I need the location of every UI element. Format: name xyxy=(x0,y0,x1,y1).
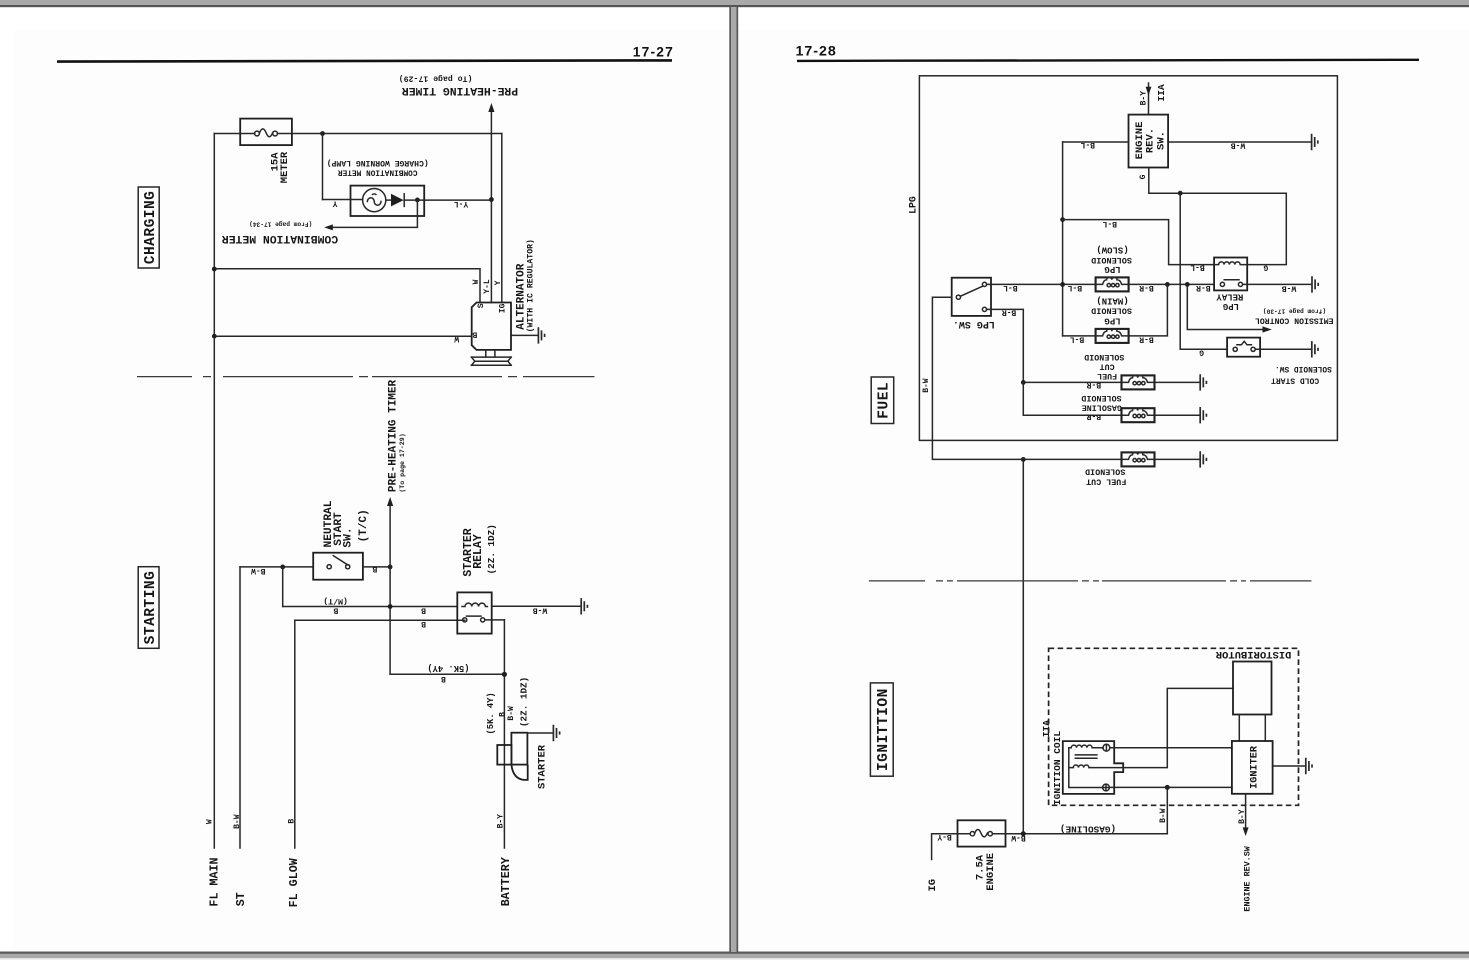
wire LPG sw B-L to slow solenoid xyxy=(987,283,1096,285)
page gutter between two scanned pages xyxy=(729,7,731,952)
svg-text:B-R: B-R xyxy=(1002,308,1017,317)
wire FL GLOW row to relay contact xyxy=(295,619,465,621)
wire battery vertical xyxy=(503,620,505,848)
fuel cut solenoid 2 L5 xyxy=(1122,452,1155,466)
diode D1 xyxy=(386,194,404,207)
engine rev switch S2 box xyxy=(1129,115,1169,168)
svg-text:B-Y: B-Y xyxy=(1238,809,1247,824)
node fuel cut solenoid row xyxy=(1021,380,1026,385)
svg-text:B: B xyxy=(333,606,338,615)
svg-text:B-W: B-W xyxy=(507,706,516,721)
ground gasoline solenoid xyxy=(1200,407,1206,423)
svg-text:Y-L: Y-L xyxy=(454,199,469,208)
wire into lamp xyxy=(323,199,363,201)
node W branch xyxy=(212,267,217,272)
svg-text:(To page 17-29): (To page 17-29) xyxy=(399,433,406,492)
node slow row / trunk xyxy=(1060,282,1065,287)
label LPG RELAY xyxy=(1216,292,1244,311)
svg-text:LPG: LPG xyxy=(1104,315,1120,325)
svg-text:LPG: LPG xyxy=(908,196,919,214)
svg-text:B-Y: B-Y xyxy=(1140,91,1149,106)
combination meter box xyxy=(351,186,425,216)
svg-text:B: B xyxy=(372,564,377,573)
cold start solenoid switch S4 xyxy=(1227,338,1260,357)
svg-text:B-W: B-W xyxy=(922,378,931,393)
svg-text:SOLENOID: SOLENOID xyxy=(1084,352,1124,362)
svg-text:(WITH IC REGULATOR): (WITH IC REGULATOR) xyxy=(526,239,536,332)
node lamp wire / timer wire xyxy=(489,197,494,202)
wire alternator E to ground xyxy=(511,334,538,336)
wire engine rev sw right to ground xyxy=(1168,141,1311,143)
svg-text:RELAY: RELAY xyxy=(472,534,485,569)
svg-text:CHARGING: CHARGING xyxy=(143,191,159,265)
svg-text:G: G xyxy=(1199,348,1204,357)
svg-text:PRE-HEATING TIMER: PRE-HEATING TIMER xyxy=(388,379,400,492)
svg-text:STARTING: STARTING xyxy=(143,571,159,645)
wire engine rev sw left B-L xyxy=(1063,141,1129,143)
label LPG SOLENOID (MAIN) xyxy=(1091,296,1132,326)
fuse F1 15A METER xyxy=(240,119,292,146)
svg-text:W-B: W-B xyxy=(533,606,548,615)
svg-text:IGNITION COIL: IGNITION COIL xyxy=(1052,731,1063,805)
LPG solenoid (MAIN) L2 xyxy=(1096,329,1129,343)
wire B-L vertical trunk xyxy=(1062,142,1064,336)
svg-text:SW.: SW. xyxy=(342,527,354,547)
svg-text:SW.: SW. xyxy=(1155,131,1167,150)
svg-text:Y: Y xyxy=(333,199,338,208)
svg-text:FL GLOW: FL GLOW xyxy=(287,857,301,907)
svg-text:B: B xyxy=(287,819,296,824)
svg-text:IIA: IIA xyxy=(1156,84,1167,101)
section label STARTING xyxy=(138,567,159,649)
wire FL GLOW vertical xyxy=(294,620,296,848)
section label CHARGING xyxy=(138,187,159,268)
wire B-W from LPG sw down outside xyxy=(932,297,1121,459)
svg-text:COLD START: COLD START xyxy=(1271,376,1319,385)
svg-text:RELAY: RELAY xyxy=(1216,292,1244,302)
ground alternator xyxy=(538,327,544,343)
svg-text:W-B: W-B xyxy=(1282,283,1297,292)
svg-text:B-R: B-R xyxy=(1196,283,1211,292)
svg-text:GASOLINE: GASOLINE xyxy=(1082,402,1122,412)
label COLD START SOLENOID SW. xyxy=(1271,364,1332,385)
label NEUTRAL START SW. (T/C) xyxy=(323,500,370,547)
svg-text:(5K. 4Y): (5K. 4Y) xyxy=(486,692,496,734)
node fuse/lamp branch xyxy=(320,131,325,136)
svg-text:B-L: B-L xyxy=(1102,219,1117,228)
alternator U1 body xyxy=(472,303,511,350)
label GASOLINE SOLENOID xyxy=(1081,393,1122,412)
svg-text:B-L: B-L xyxy=(1190,263,1205,272)
svg-text:17-28: 17-28 xyxy=(795,43,836,59)
svg-text:ENGINE: ENGINE xyxy=(985,853,997,891)
wire Y to alternator IG xyxy=(501,134,503,303)
wire branch down to M/T row xyxy=(282,567,284,607)
fuel cut solenoid L3 xyxy=(1122,375,1155,389)
wire igniter down arrow to engine rev sw xyxy=(1245,794,1247,828)
svg-text:LPG: LPG xyxy=(1223,301,1239,311)
svg-text:EMISSION CONTROL: EMISSION CONTROL xyxy=(1255,316,1334,325)
svg-text:(2Z. 1DZ): (2Z. 1DZ) xyxy=(519,677,530,727)
igniter U2 box xyxy=(1232,741,1273,794)
wire long B-W vertical to ignition xyxy=(1022,459,1024,833)
svg-text:W-B: W-B xyxy=(1231,141,1246,150)
wire riser to ignition coil plus xyxy=(1166,787,1168,833)
labels on battery line (5K. 4Y) B B-W (2Z. 1DZ) xyxy=(486,677,530,735)
arrow from IIA xyxy=(1148,83,1150,115)
svg-text:LPG: LPG xyxy=(1104,264,1120,274)
wire terminal1 to igniter xyxy=(1110,747,1232,749)
wire fuse output to IG corner xyxy=(292,133,502,135)
wire lamp branch vertical xyxy=(322,134,324,200)
wire fuel cut 2 to ground xyxy=(1155,458,1200,460)
alternator pulley xyxy=(471,350,511,365)
wire fuse to FL MAIN vertical xyxy=(214,133,240,135)
node B-W trunk at fuse output xyxy=(1021,831,1026,836)
neutral start switch S1 box xyxy=(313,553,363,580)
svg-text:W: W xyxy=(206,819,215,824)
ground starter relay xyxy=(581,598,587,614)
node fuel cut 2 row xyxy=(1021,457,1026,462)
wire relay contact to ground xyxy=(1243,283,1312,285)
starter M1 glyph xyxy=(497,733,527,780)
svg-text:IIA: IIA xyxy=(1041,720,1052,737)
wire plus terminal to igniter xyxy=(1109,786,1232,788)
wires distributor to igniter xyxy=(1239,715,1265,742)
label LPG SOLENOID (SLOW) xyxy=(1091,245,1132,274)
wire B-L branch to relay coil xyxy=(1063,220,1215,265)
svg-text:B-R: B-R xyxy=(1139,334,1154,343)
wire slow solenoid to relay xyxy=(1129,283,1215,285)
svg-text:B: B xyxy=(472,329,477,338)
node emission control branch xyxy=(1185,282,1190,287)
svg-text:(MAIN): (MAIN) xyxy=(1096,296,1128,306)
wire fuel cut row xyxy=(1023,381,1121,383)
svg-text:COMBINATION METER: COMBINATION METER xyxy=(338,168,418,176)
label STARTER RELAY (2Z. 1DZ) xyxy=(462,524,497,576)
label FUEL CUT SOLENOID 2 xyxy=(1085,467,1126,487)
wire B-W to neutral start sw xyxy=(240,566,313,568)
node battery/starter junction xyxy=(502,672,507,677)
node timer vertical at sw wire xyxy=(388,565,393,570)
ground fuel cut 2 xyxy=(1200,451,1206,467)
svg-text:IG: IG xyxy=(927,879,939,892)
section divider dash-dot right page xyxy=(869,580,1312,582)
label 7.5A ENGINE xyxy=(974,853,997,891)
distributor dashed boundary xyxy=(1049,648,1299,805)
svg-text:SOLENOID: SOLENOID xyxy=(1091,306,1132,316)
label 15A METER xyxy=(269,151,291,183)
ground LPG relay xyxy=(1312,276,1318,292)
svg-text:IG: IG xyxy=(498,303,507,313)
coil secondary winding xyxy=(1069,765,1123,768)
distributor body xyxy=(1233,662,1272,715)
svg-text:B-L: B-L xyxy=(1070,334,1085,343)
svg-text:B-W: B-W xyxy=(251,566,266,575)
svg-text:W: W xyxy=(472,279,481,284)
svg-text:(T/C): (T/C) xyxy=(358,509,370,542)
svg-text:B: B xyxy=(441,674,446,683)
LPG relay K2 xyxy=(1214,258,1247,291)
fuse F2 7.5A ENGINE xyxy=(958,820,1006,846)
wire down to gasoline row xyxy=(1023,382,1121,415)
bottom scanner gray bar xyxy=(0,952,1469,954)
wire main solenoid row xyxy=(1063,284,1168,336)
LPG solenoid (SLOW) L1 xyxy=(1096,277,1129,291)
svg-text:B-W: B-W xyxy=(1011,833,1026,842)
wire G from engine rev sw xyxy=(1149,168,1287,265)
header rule left page xyxy=(57,60,672,61)
svg-text:B-R: B-R xyxy=(1139,283,1154,292)
svg-text:LPG SW.: LPG SW. xyxy=(953,318,995,329)
starter relay K1 xyxy=(457,592,491,633)
label FUEL CUT SOLENOID xyxy=(1084,352,1124,381)
coil terminal plus xyxy=(1103,784,1110,791)
svg-text:B-L: B-L xyxy=(1080,140,1095,149)
svg-text:FUEL: FUEL xyxy=(877,382,893,419)
svg-text:Y-L: Y-L xyxy=(483,279,492,294)
node plus/riser junction xyxy=(1165,785,1170,790)
section label IGNITTION xyxy=(870,683,893,776)
svg-text:B-Y: B-Y xyxy=(937,832,952,841)
node G branch to cold start xyxy=(1178,191,1183,196)
svg-text:METER: METER xyxy=(279,151,291,183)
svg-text:(from page 17-30): (from page 17-30) xyxy=(1263,308,1326,315)
svg-text:IGNITER: IGNITER xyxy=(1249,745,1260,789)
svg-text:IGNITTION: IGNITTION xyxy=(876,688,892,771)
node main solenoid branch xyxy=(1165,282,1170,287)
svg-text:S: S xyxy=(477,303,486,308)
svg-text:(SLOW): (SLOW) xyxy=(1096,245,1128,255)
ignition coil T1 body xyxy=(1063,741,1123,794)
svg-text:B-L: B-L xyxy=(1068,283,1083,292)
wire relay contact to battery line xyxy=(485,619,505,621)
svg-text:ENGINE REV.SW: ENGINE REV.SW xyxy=(1243,845,1253,911)
wire fuse output gasoline row xyxy=(1006,833,1168,835)
wire G to cold start solenoid sw xyxy=(1180,193,1227,349)
arrow to pre-heating timer xyxy=(490,110,492,303)
svg-text:(GASOLINE): (GASOLINE) xyxy=(1060,823,1116,834)
wire relay coil to ground xyxy=(492,605,581,607)
node diode output xyxy=(415,198,420,203)
svg-text:BATTERY: BATTERY xyxy=(499,857,513,906)
svg-text:SOLENOID: SOLENOID xyxy=(1091,255,1132,265)
wire emission control branch with arrow xyxy=(1187,284,1263,329)
node B-L branch upper xyxy=(1060,217,1065,222)
wire IG to fuse xyxy=(932,834,958,860)
svg-text:(5K. 4Y): (5K. 4Y) xyxy=(427,663,469,673)
svg-text:DISTORIBUTOR: DISTORIBUTOR xyxy=(1215,648,1291,660)
svg-text:B-W: B-W xyxy=(1159,808,1168,823)
svg-text:STARTER: STARTER xyxy=(537,744,549,789)
svg-text:FL MAIN: FL MAIN xyxy=(208,857,222,906)
svg-text:B-L: B-L xyxy=(1003,283,1018,292)
arrow up to pre-heating timer xyxy=(389,504,391,674)
wire FL MAIN vertical xyxy=(213,134,215,849)
coil core bars xyxy=(1075,755,1097,758)
header rule right page xyxy=(797,60,1419,61)
section label FUEL xyxy=(871,377,894,424)
svg-text:COMBINATION METER: COMBINATION METER xyxy=(222,232,338,244)
ground fuel cut xyxy=(1200,374,1206,390)
svg-text:(M/T): (M/T) xyxy=(323,596,348,606)
svg-text:SOLENOID SW.: SOLENOID SW. xyxy=(1275,364,1332,373)
svg-text:B-W: B-W xyxy=(233,814,242,829)
label ENGINE REV. SW. xyxy=(1134,122,1167,160)
coil internal link xyxy=(1069,748,1103,788)
gasoline solenoid L4 xyxy=(1122,408,1155,422)
svg-text:17-27: 17-27 xyxy=(633,44,674,59)
wire center tap to distributor xyxy=(1123,688,1233,767)
wire B to alternator xyxy=(214,335,471,337)
wire gasoline to ground xyxy=(1155,414,1200,416)
svg-text:B-R: B-R xyxy=(1087,412,1102,421)
svg-text:FUEL: FUEL xyxy=(1097,371,1117,381)
wire W from node to alternator S corner xyxy=(214,269,480,303)
wire diode to node xyxy=(404,199,491,201)
svg-text:W: W xyxy=(454,334,459,343)
svg-text:Y: Y xyxy=(494,280,503,285)
ground starter xyxy=(553,725,559,741)
svg-text:B-R: B-R xyxy=(1087,380,1102,389)
svg-text:PRE-HEATING TIMER: PRE-HEATING TIMER xyxy=(402,84,518,96)
section divider dash-dot left page xyxy=(137,376,595,378)
svg-text:CUT: CUT xyxy=(1100,362,1115,372)
wire color labels at terminals W B-W B B-Y xyxy=(206,814,506,829)
svg-text:FUEL CUT: FUEL CUT xyxy=(1086,476,1126,486)
svg-text:G: G xyxy=(1263,262,1268,271)
svg-text:SOLENOID: SOLENOID xyxy=(1085,467,1125,477)
wire to from-page arrow xyxy=(331,200,417,228)
svg-text:(CHARGE WORNING LAMP): (CHARGE WORNING LAMP) xyxy=(327,158,429,167)
wire M/T row xyxy=(283,606,458,608)
svg-text:B: B xyxy=(421,606,426,615)
svg-text:(From page 17-34): (From page 17-34) xyxy=(249,220,312,227)
svg-text:(To page 17-29): (To page 17-29) xyxy=(399,74,473,84)
wire LPG sw B-R down to fuel cut row xyxy=(987,309,1024,382)
LPG switch S3 box xyxy=(952,278,991,316)
wire igniter to ground xyxy=(1273,765,1306,767)
node neutral sw branch xyxy=(280,565,285,570)
svg-text:(2Z. 1DZ): (2Z. 1DZ) xyxy=(486,524,497,574)
node B branch xyxy=(212,334,217,339)
wire 5K 4Y row xyxy=(390,673,504,675)
ground cold start xyxy=(1312,341,1318,357)
node timer/relay row xyxy=(388,604,393,609)
ground igniter xyxy=(1306,758,1312,774)
ground engine rev sw xyxy=(1312,134,1318,150)
wire cold start to ground xyxy=(1255,348,1311,350)
wire neutral sw to timer vertical xyxy=(363,566,390,568)
svg-text:B-Y: B-Y xyxy=(497,814,506,829)
coil terminal 1 xyxy=(1103,744,1110,751)
arrowhead from page 17-34 xyxy=(324,224,333,230)
charge lamp xyxy=(363,189,386,212)
wire ST vertical xyxy=(239,567,241,848)
coil primary winding xyxy=(1069,745,1103,748)
svg-text:ST: ST xyxy=(234,892,248,906)
svg-text:G: G xyxy=(1139,174,1148,179)
LPG system boundary rectangle xyxy=(919,76,1337,441)
svg-text:SOLENOID: SOLENOID xyxy=(1081,393,1121,403)
wire starter to ground xyxy=(527,732,552,734)
wire fuel cut to ground xyxy=(1155,381,1200,383)
top scanner gray bar xyxy=(0,0,1469,5)
